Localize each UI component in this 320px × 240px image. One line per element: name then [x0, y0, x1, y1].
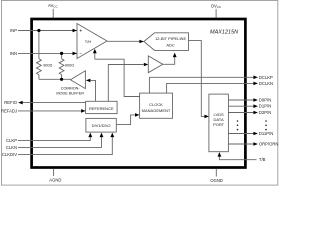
svg-text:D2P/N: D2P/N — [259, 110, 271, 115]
svg-text:ORP/ORN: ORP/ORN — [259, 142, 279, 147]
svg-text:T/H: T/H — [85, 39, 92, 44]
svg-text:REFADJ: REFADJ — [1, 109, 17, 114]
svg-text:DIV1/DIV2: DIV1/DIV2 — [92, 123, 112, 128]
svg-text:MAX1215N: MAX1215N — [210, 30, 238, 36]
svg-text:OGND: OGND — [210, 178, 223, 183]
svg-text:DCLKN: DCLKN — [259, 81, 273, 86]
svg-text:INN: INN — [10, 51, 17, 56]
svg-text:MANAGEMENT: MANAGEMENT — [142, 108, 171, 113]
svg-text:900Ω: 900Ω — [65, 64, 74, 68]
svg-text:DCLKP: DCLKP — [259, 75, 273, 80]
svg-text:ADC: ADC — [166, 42, 175, 47]
svg-text:900Ω: 900Ω — [43, 64, 52, 68]
svg-text:REFIO: REFIO — [4, 100, 18, 105]
svg-text:+: + — [79, 29, 82, 35]
svg-text:CLKP: CLKP — [6, 138, 17, 143]
svg-text:12-BIT PIPELINE: 12-BIT PIPELINE — [155, 36, 186, 41]
svg-text:T/B: T/B — [259, 157, 266, 162]
svg-text:COMMON-: COMMON- — [61, 87, 81, 91]
svg-text:AGND: AGND — [49, 177, 61, 182]
svg-text:CLKN: CLKN — [6, 145, 17, 150]
svg-text:D1P/N: D1P/N — [259, 104, 271, 109]
svg-text:OVCC: OVCC — [211, 4, 222, 10]
svg-text:CLOCK: CLOCK — [149, 102, 163, 107]
svg-text:PORT: PORT — [213, 122, 225, 127]
svg-text:CLKDIV: CLKDIV — [2, 152, 17, 157]
svg-text:MODE BUFFER: MODE BUFFER — [56, 91, 84, 95]
svg-text:D0P/N: D0P/N — [259, 98, 271, 103]
svg-text:AVCC: AVCC — [48, 3, 58, 9]
svg-text:D11P/N: D11P/N — [259, 131, 273, 136]
svg-text:−: − — [79, 51, 82, 57]
svg-text:REFERENCE: REFERENCE — [89, 106, 114, 111]
svg-text:INP: INP — [10, 28, 17, 33]
